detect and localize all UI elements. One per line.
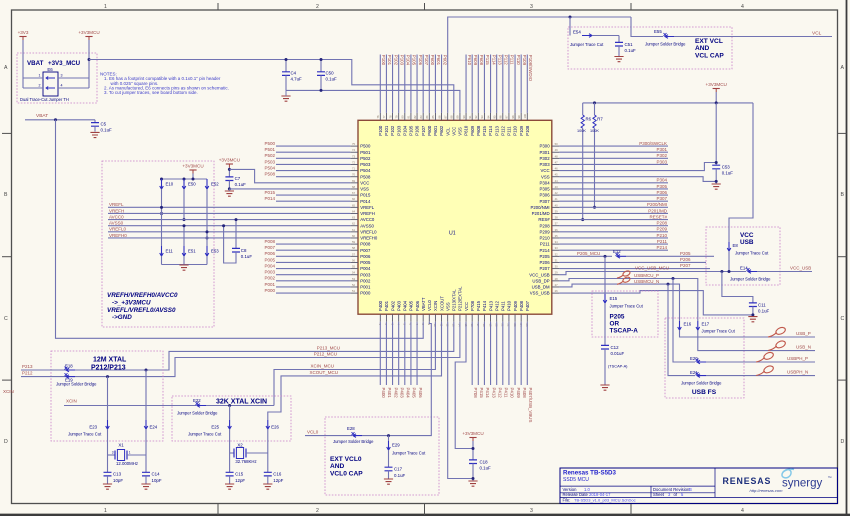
svg-text:XCIN: XCIN [3,389,14,394]
diff pair symbol USB_N [768,346,777,351]
wire P213 left [21,369,64,371]
svg-text:P501: P501 [264,147,275,152]
ground below C17 [384,479,393,484]
svg-text:Jumper Trace Cut: Jumper Trace Cut [68,431,102,436]
op-amp U1 MCU body [358,120,552,314]
svg-text:P602: P602 [439,125,444,136]
jumper E8 trace cut [727,242,731,251]
svg-text:C14: C14 [152,472,161,477]
svg-text:P003: P003 [264,270,275,275]
jumper E29 trace cut [388,436,390,441]
wire +3V3MCU to E8 [729,103,753,242]
svg-text:VSS: VSS [458,127,463,136]
svg-text:P104: P104 [403,125,408,136]
svg-text:VCC_USB: VCC_USB [529,272,549,277]
svg-text:64: 64 [352,209,355,213]
svg-text:Renesas TB-S5D3: Renesas TB-S5D3 [563,470,617,477]
svg-text:A: A [4,65,8,71]
svg-text:OR: OR [610,321,620,328]
svg-text:44: 44 [555,179,558,183]
svg-text:C50: C50 [326,70,335,75]
node E29 riser [387,434,390,437]
svg-text:P410: P410 [507,300,512,311]
svg-text:99: 99 [517,115,521,118]
node R6 to RES row [581,218,584,221]
svg-text:E15: E15 [610,296,618,301]
svg-text:P206: P206 [680,257,691,262]
svg-text:TSCAP-A: TSCAP-A [610,328,639,335]
svg-text:P005: P005 [264,257,275,262]
svg-text:82: 82 [413,115,417,118]
svg-text:78: 78 [388,115,392,118]
svg-text:1: 1 [104,4,107,10]
dashed box EXT VCL AND VCL CAP [568,27,732,69]
svg-text:83: 83 [419,115,423,118]
svg-text:3: 3 [112,451,114,455]
svg-text:XCIN_MCU: XCIN_MCU [310,364,334,369]
title block frame [560,468,838,504]
power +3V3MCU c7 [226,163,233,165]
svg-text:P504: P504 [360,168,371,173]
svg-text:29: 29 [555,271,558,275]
svg-text:File:: File: [563,498,571,503]
svg-text:synergy: synergy [782,478,823,490]
dashed box 12M XTAL [51,351,163,441]
diff pair symbol USBPH_P [756,357,765,362]
svg-text:77: 77 [382,115,386,118]
svg-text:C15: C15 [235,472,244,477]
svg-text:75: 75 [352,142,355,146]
svg-text:XCIN: XCIN [433,301,438,311]
svg-text:USB_DP: USB_DP [532,278,549,283]
svg-text:VREFH: VREFH [109,208,124,213]
diff pair symbol USB_P [768,332,777,337]
svg-text:70: 70 [352,173,355,177]
power +3V3MCU vref [189,169,196,171]
svg-text:E10: E10 [166,182,174,187]
ground below C12 [600,385,609,390]
svg-text:P407/USB_VBUS: P407/USB_VBUS [528,388,533,423]
svg-text:B: B [689,487,692,492]
svg-text:P201/MD: P201/MD [648,208,668,213]
svg-text:P412: P412 [494,300,499,311]
wire P212 left [21,376,64,378]
svg-text:E25: E25 [211,424,219,429]
svg-text:B: B [841,192,845,198]
wire E54 to C51 [592,35,619,37]
svg-text:53: 53 [352,277,355,281]
svg-text:P014: P014 [360,199,371,204]
wire E50 to AVCC0 [183,189,185,220]
svg-text:P000: P000 [360,291,371,296]
jumper E25 trace cut [228,420,232,429]
svg-text:79: 79 [394,115,398,118]
svg-text:P401: P401 [387,388,392,399]
dashed box EXT VCL0 [325,417,439,495]
wire E20 to USBPH_P [706,361,815,363]
svg-text:49: 49 [555,148,558,152]
svg-text:P211: P211 [540,242,550,247]
wire VCC_USB row [559,272,746,275]
svg-text:E26: E26 [271,424,279,429]
svg-text:72: 72 [352,160,355,164]
svg-text:P303: P303 [656,159,667,164]
svg-text:P113: P113 [494,125,499,135]
svg-text:E24: E24 [150,424,158,429]
svg-text:81: 81 [407,115,411,118]
svg-text:AVSS0: AVSS0 [109,221,124,226]
svg-text:46: 46 [555,167,558,171]
svg-text:P414: P414 [482,300,487,311]
svg-text:74: 74 [352,148,355,152]
svg-text:34: 34 [555,240,558,244]
svg-text:66: 66 [352,197,355,201]
svg-text:P001: P001 [360,285,371,290]
svg-text:100K: 100K [590,129,599,133]
svg-text:C: C [4,316,8,322]
capacitor C15 [229,453,231,472]
svg-text:43: 43 [555,185,558,189]
svg-text:VCC: VCC [541,168,550,173]
node VBAT riser [54,118,57,121]
node R7 to NMI row [593,206,596,209]
svg-text:VBAT: VBAT [27,60,44,67]
svg-text:31: 31 [555,258,558,262]
svg-text:62: 62 [352,222,355,226]
svg-text:73: 73 [352,154,355,158]
svg-text:P708: P708 [473,388,478,399]
svg-text:P108/SWDIO: P108/SWDIO [528,55,533,82]
svg-text:63: 63 [352,216,355,220]
jumper E10 trace cut [160,179,164,189]
svg-text:92: 92 [474,115,478,118]
svg-text:VREFH0: VREFH0 [360,236,378,241]
wire VCL riser and top run [448,17,631,113]
svg-text:P102: P102 [390,125,395,136]
capacitor C16 [267,453,269,472]
svg-text:P114: P114 [491,55,496,65]
svg-text:P200/NMI: P200/NMI [647,202,667,207]
svg-text:->_+3V3MCU: ->_+3V3MCU [112,299,151,306]
svg-text:P307: P307 [656,196,667,201]
svg-text:89: 89 [456,115,460,118]
svg-text:X1: X1 [118,442,124,447]
wire +3V3 to E6 pins [22,40,24,88]
svg-text:D: D [841,439,845,445]
svg-text:P015: P015 [360,193,371,198]
wire GND bottom rail [286,90,460,113]
svg-text:P214: P214 [540,248,551,253]
svg-text:42: 42 [555,191,558,195]
svg-text:+3V3MCU: +3V3MCU [706,82,727,87]
svg-text:RENESAS: RENESAS [723,476,772,486]
wires bottom pin bundle with labels [379,322,381,385]
wire c7 top [228,168,230,177]
svg-text:VCC: VCC [464,302,469,311]
svg-text:P004: P004 [360,266,371,271]
wire E29 to C17 [388,450,390,467]
wire XCOUT_MCU run [268,322,442,420]
svg-text:VREFL: VREFL [109,202,124,207]
svg-text:P101: P101 [387,55,392,66]
jumper E6 arrows [46,77,55,90]
svg-text:P408: P408 [522,388,527,399]
svg-text:P212_MCU: P212_MCU [314,352,337,357]
svg-text:P307: P307 [540,199,551,204]
wire P212_MCU run [64,322,460,377]
wire E12 to P205 stub [626,255,714,257]
svg-text:Jumper Trace Cut: Jumper Trace Cut [570,42,604,47]
svg-text:3: 3 [530,508,533,514]
svg-text:26: 26 [555,289,558,293]
svg-text:RESET#: RESET# [649,214,667,219]
svg-text:80: 80 [401,115,405,118]
svg-text:85: 85 [431,115,435,118]
svg-text:60: 60 [352,234,355,238]
svg-text:R6: R6 [586,117,592,122]
jumper E52 trace cut [205,179,209,189]
wires right pin rows with net labels [559,145,668,147]
svg-text:1: 1 [104,508,107,514]
svg-text:C16: C16 [273,472,282,477]
svg-text:P110: P110 [516,55,521,65]
svg-text:32K XTAL XCIN: 32K XTAL XCIN [216,399,267,406]
wire USB_N row [698,330,815,351]
svg-text:P502: P502 [360,156,371,161]
svg-text:0.1uF: 0.1uF [101,128,113,133]
svg-text:X2: X2 [237,442,243,447]
svg-text:48: 48 [555,154,558,158]
svg-text:65: 65 [352,203,355,207]
svg-text:P006: P006 [264,251,275,256]
svg-text:+3V3_MCU: +3V3_MCU [48,60,81,67]
svg-text:C13: C13 [113,472,122,477]
wire P206 row [559,261,706,263]
svg-text:52: 52 [352,283,355,287]
svg-text:VCL CAP: VCL CAP [695,52,724,59]
svg-text:E29: E29 [392,443,400,448]
frame zone ticks [217,3,219,10]
svg-text:E50: E50 [188,182,196,187]
svg-text:P401: P401 [384,300,389,311]
svg-text:P414: P414 [485,388,490,399]
svg-text:0.1uF: 0.1uF [480,466,492,471]
svg-text:C: C [841,316,845,322]
svg-text:P413: P413 [488,300,493,311]
node C53 top [715,161,718,164]
svg-text:P100: P100 [378,125,383,136]
svg-text:Jumper Trace Cut: Jumper Trace Cut [188,432,222,437]
nodes right rail [593,101,596,104]
svg-text:C12: C12 [611,345,620,350]
svg-text:P608: P608 [479,55,484,66]
power +3V3MCU c18 [469,437,476,439]
diff pair symbol USBMCU_N [617,281,623,284]
svg-text:100K: 100K [577,129,586,133]
wire E52 to VREFH0 [206,189,208,238]
resistor R7 [594,103,596,115]
svg-text:P610: P610 [467,55,472,66]
svg-text:27: 27 [555,283,558,287]
svg-text:P112: P112 [504,55,509,65]
svg-text:P211: P211 [657,239,668,244]
svg-text:P500: P500 [264,141,275,146]
svg-text:VREFH: VREFH [360,211,375,216]
wire c18 bottom [472,464,474,482]
wire USBMCU_N to E21 [668,284,695,376]
svg-text:P508: P508 [360,174,371,179]
svg-text:P109: P109 [519,125,524,136]
svg-text:P201/MD: P201/MD [532,211,550,216]
svg-text:(TSCAP-A): (TSCAP-A) [608,364,628,369]
svg-text:VSS_USB: VSS_USB [530,291,550,296]
svg-text:0.1uF: 0.1uF [394,473,406,478]
svg-text:B: B [4,192,8,198]
wire P213_MCU run [64,322,454,370]
sheet right edge [846,0,848,516]
crystal X2 [229,429,231,453]
svg-text:56: 56 [352,258,355,262]
node E23 on P212 row [106,375,109,378]
nodes VCC_USB row [720,270,723,273]
svg-text:XCIN: XCIN [66,398,77,403]
svg-text:P301: P301 [540,150,551,155]
wire vref top rail [192,174,194,180]
svg-text:C4: C4 [291,70,297,75]
svg-text:C8: C8 [241,248,247,253]
ground vref [179,265,188,270]
wire C53 bottom [715,169,717,184]
svg-text:87: 87 [443,115,447,118]
svg-text:E28: E28 [347,426,355,431]
svg-text:P008: P008 [264,239,275,244]
svg-text:3: 3 [61,74,63,78]
svg-text:P000: P000 [264,288,275,293]
svg-text:4: 4 [61,84,63,88]
svg-text:P111: P111 [507,126,512,136]
capacitor C51 [615,42,623,46]
svg-text:P304: P304 [656,178,667,183]
wire E14 to VCC_USB label [757,271,812,273]
svg-text:VCC_USB_MCU: VCC_USB_MCU [635,266,669,271]
svg-text:35: 35 [555,234,558,238]
svg-text:VCL0: VCL0 [307,430,319,435]
svg-text:P609: P609 [473,55,478,66]
wires top pin bundle with labels [379,55,381,113]
node VCL branch [569,16,572,19]
svg-text:E11: E11 [166,249,174,254]
svg-text:VCL0: VCL0 [427,300,432,311]
jumper E26 trace cut [266,420,270,429]
svg-text:P400: P400 [381,388,386,399]
svg-text:P103: P103 [396,125,401,136]
svg-text:TB-S5D3_v1.0_p03_MCU.SchDoc: TB-S5D3_v1.0_p03_MCU.SchDoc [574,498,636,503]
capacitor C53 [712,165,720,169]
nodes vref rail [160,178,163,181]
dashed box USB FS [665,318,744,398]
svg-text:P101: P101 [384,125,389,136]
ground below C13 [103,484,112,489]
jumper E50 trace cut [182,179,186,189]
svg-text:P300: P300 [540,144,551,149]
svg-text:0.1uF: 0.1uF [235,182,247,187]
ground below C4 [281,96,290,101]
svg-text:+3V3MCU: +3V3MCU [182,164,203,169]
capacitor C11 [749,303,757,307]
svg-text:45: 45 [555,173,558,177]
wire VCL to E55 [631,17,663,37]
svg-text:86: 86 [437,115,441,118]
wire VBAT long run to VBATT pin [56,120,424,338]
svg-text:P105: P105 [412,55,417,66]
svg-text:41: 41 [555,197,558,201]
svg-text:->GND: ->GND [112,314,132,321]
svg-text:P006: P006 [360,254,371,259]
svg-text:C5: C5 [101,122,107,127]
svg-text:94: 94 [486,115,490,118]
wire E10 to VREFH [161,189,163,213]
svg-text:P206: P206 [540,260,551,265]
wire E15 to C12 [604,303,606,345]
svg-text:P610: P610 [464,125,469,136]
svg-text:2: 2 [316,508,319,514]
svg-text:P007: P007 [360,248,371,253]
svg-text:P106: P106 [418,55,423,66]
svg-text:P412: P412 [497,388,502,399]
svg-text:VCC_USB: VCC_USB [790,266,811,271]
wire USB_P row [680,330,816,337]
jumper E6 body [43,72,58,96]
wire E25 column [229,406,231,421]
wire XCIN left [64,405,196,407]
svg-text:P014: P014 [264,196,275,201]
svg-text:VCL: VCL [445,127,450,136]
node +3V3MCU junction [88,58,91,61]
wire USBMCU_P to E20 [673,279,695,363]
svg-text:P500: P500 [360,144,371,149]
svg-text:0.1uF: 0.1uF [722,171,734,176]
svg-text:P402: P402 [393,388,398,399]
svg-text:0.1uF: 0.1uF [625,48,637,53]
svg-text:P103: P103 [399,55,404,66]
ground below C15 [225,484,234,489]
svg-text:AVCC0: AVCC0 [360,217,375,222]
svg-text:P407: P407 [525,300,530,311]
svg-text:USBMCU_N: USBMCU_N [634,279,659,284]
svg-text:VREFL0: VREFL0 [109,227,127,232]
svg-text:P411: P411 [501,301,506,311]
svg-text:C11: C11 [758,302,766,307]
svg-text:98: 98 [511,115,515,118]
svg-text:P408: P408 [519,300,524,311]
svg-text:E55: E55 [654,29,662,34]
svg-text:2018-04-17: 2018-04-17 [589,492,611,497]
svg-text:VREFL0: VREFL0 [360,229,377,234]
jumper E16 trace cut [678,321,682,330]
jumper E23 trace cut [106,420,110,429]
power +3V3MCU right [713,88,720,90]
diff pair symbol USBPH_N [756,371,765,376]
svg-text:E17: E17 [702,322,710,327]
wire VCC row to C53 [559,163,716,171]
svg-text:71: 71 [352,167,355,171]
svg-text:P504: P504 [264,165,275,170]
svg-text:P413: P413 [491,388,496,399]
wire E22 to riser [206,405,274,407]
svg-text:P601: P601 [433,125,438,136]
svg-text:100: 100 [523,114,527,119]
svg-text:39: 39 [555,209,558,213]
